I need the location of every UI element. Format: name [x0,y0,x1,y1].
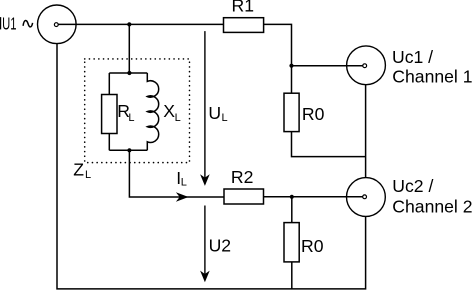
pin U1 center [54,23,58,27]
pin Uc1 center [363,64,367,68]
svg-text:X: X [163,101,175,121]
svg-text:R1: R1 [232,0,255,16]
wire RL bottom stub [108,134,110,151]
sine symbol [23,20,32,26]
wire top from U1 to R1 [57,23,224,25]
svg-text:Channel 1: Channel 1 [392,67,472,87]
wire node A to Uc1 center [292,65,365,67]
resistor RL [102,95,117,134]
svg-text:R0: R0 [302,104,325,124]
wire node A down to R0 top [291,66,293,94]
wire junction top to ZL box [128,24,130,73]
svg-text:R2: R2 [231,167,254,187]
wire ZL bottom bar [109,149,147,151]
resistor R0 bottom [284,223,299,262]
resistor R2 [224,189,264,204]
junction node B [290,195,294,199]
wire Uc1 bottom to Uc2 top [365,85,367,178]
svg-text:Uc2 /: Uc2 / [392,176,433,196]
arrow UL [200,31,210,186]
svg-text:R0: R0 [301,236,324,256]
svg-text:L: L [85,169,91,181]
svg-text:L: L [222,112,228,124]
connector Uc1 circle [347,46,386,85]
wire IL from ZL bottom to R2 [129,150,224,197]
wire RL top stub [108,73,110,95]
svg-text:Channel 2: Channel 2 [392,197,472,217]
label U1 [0,15,33,34]
arrow IL head [176,192,189,202]
source U1 circle [38,5,77,44]
wire R1 right to corner down to node A [264,24,292,65]
arrow U2 [200,206,210,283]
junction dot top wire [127,22,131,26]
wire Uc2 bottom, bottom rail, left rail to U1 [57,44,366,289]
wire node B down to R0 bottom resistor [291,197,293,223]
resistor R0 top [284,93,299,131]
svg-text:U: U [208,103,221,123]
junction dot ZL top [127,71,131,75]
resistor R1 [224,18,264,33]
wire R0 bottom to bottom rail [291,262,293,289]
wire ZL top bar [109,72,147,74]
junction dot ZL bottom [127,148,131,152]
svg-text:U1: U1 [2,15,16,34]
svg-text:L: L [128,112,134,124]
inductor XL [147,73,158,150]
wire R2 right to Uc2 center [264,196,365,198]
svg-text:Z: Z [73,160,84,180]
svg-text:L: L [181,177,187,189]
svg-text:Uc1 /: Uc1 / [392,47,433,67]
svg-text:L: L [175,112,181,124]
impedance ZL dotted box [85,59,190,163]
connector Uc2 circle [347,178,386,217]
junction node A [289,64,293,68]
wire R0 bottom to right vertical [292,132,366,157]
pin Uc2 center [363,195,367,199]
svg-text:U2: U2 [209,236,232,256]
